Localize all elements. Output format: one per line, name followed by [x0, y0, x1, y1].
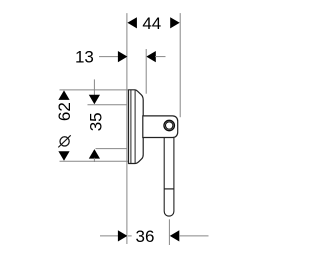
dimension 62 arrow up: [58, 90, 69, 100]
dimension 36 tail line left: [100, 235, 119, 237]
flange front seam line: [134, 90, 136, 163]
svg-text:36: 36: [136, 227, 155, 246]
extension line 35 top: [88, 104, 128, 106]
pivot outer circle: [164, 120, 174, 130]
dimension 35 line below: [93, 158, 95, 162]
hanging rod: [164, 138, 174, 216]
dimension 44 arrow left: [127, 17, 136, 28]
svg-text:35: 35: [87, 112, 106, 131]
diameter symbol slash: [58, 135, 70, 147]
extension line for 13 (front face plane): [145, 49, 147, 94]
front tip extension line (44 right): [179, 13, 181, 117]
dimension 36 arrow left-pointing: [170, 230, 180, 241]
dimension 35 arrow up: [89, 149, 100, 159]
escutcheon flange and cone outline: [129, 90, 144, 164]
svg-text:44: 44: [142, 14, 161, 33]
dimension 36 stub: [128, 235, 132, 237]
svg-text:13: 13: [75, 47, 94, 66]
dimension 44 arrow right: [170, 17, 180, 28]
dimension 13 arrow left-pointing: [146, 51, 156, 62]
flange inner seam line: [130, 90, 132, 163]
wall extension line: [126, 13, 128, 244]
dimension 13 tail line right: [155, 56, 166, 58]
extension line 35 bottom: [96, 148, 128, 150]
pivot arm body: [143, 116, 178, 138]
rod centerline extension: [168, 219, 170, 245]
dimension 35 arrow down: [89, 95, 100, 105]
dimension 62 arrow down: [58, 151, 69, 161]
pivot inner circle: [166, 122, 173, 129]
rod joint line: [164, 188, 174, 190]
diameter symbol circle: [60, 137, 69, 146]
dimension 13 tail line left: [99, 56, 119, 58]
dimension 35 line above: [93, 79, 95, 95]
dimension 36 arrow right-pointing: [118, 230, 128, 241]
extension line diameter bottom: [60, 160, 129, 162]
extension line diameter top: [60, 89, 129, 91]
dimension 36 tail line right: [179, 235, 209, 237]
dimension 13 arrow right-pointing: [118, 51, 128, 62]
svg-text:62: 62: [55, 102, 74, 121]
